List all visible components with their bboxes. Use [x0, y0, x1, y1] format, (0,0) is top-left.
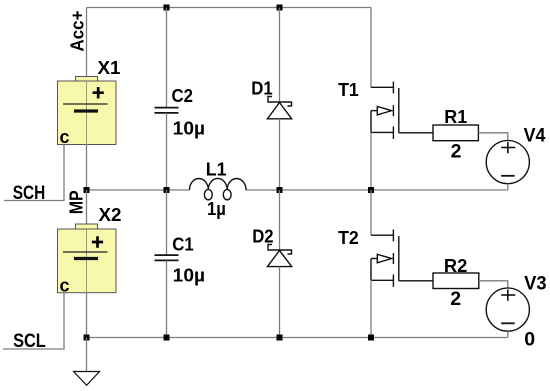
wire T1 gate to R1	[399, 132, 433, 134]
resistor R1	[433, 125, 478, 141]
voltage source V3	[486, 288, 529, 331]
svg-text:D2: D2	[252, 226, 273, 247]
wire R2 to V3	[479, 281, 508, 288]
wire D2 bottom	[279, 267, 281, 338]
svg-text:X1: X1	[98, 57, 121, 78]
battery X2	[58, 224, 117, 296]
svg-text:10µ: 10µ	[173, 266, 205, 286]
svg-text:R1: R1	[444, 106, 467, 127]
junction D mid	[277, 187, 283, 193]
svg-text:0: 0	[524, 329, 535, 351]
diode D1	[267, 97, 291, 119]
wire MP to X2	[86, 190, 88, 224]
wire C2 top	[166, 8, 168, 108]
wire T2 source lead	[370, 280, 372, 337]
svg-text:V4: V4	[524, 125, 546, 146]
svg-text:C1: C1	[172, 234, 194, 255]
wire D2 top	[279, 190, 281, 250]
inductor L1	[190, 178, 247, 199]
wire V4 bottom to MP rail	[507, 184, 509, 190]
wire V3 bottom to bottom rail	[507, 331, 509, 337]
wire R1 to V4	[478, 133, 507, 141]
junction X2 bottom	[84, 335, 90, 341]
wire D1 top	[279, 8, 281, 103]
svg-text:SCL: SCL	[13, 330, 46, 352]
junction C1 bottom	[164, 335, 170, 341]
wire D1 bottom	[279, 119, 281, 190]
wire T2 gate to R2	[399, 280, 433, 282]
svg-text:V3: V3	[524, 273, 547, 294]
junction T1 source	[368, 187, 374, 193]
svg-text:D1: D1	[251, 78, 272, 99]
svg-text:2: 2	[451, 141, 462, 163]
wire T2 drain lead	[370, 190, 372, 235]
junction C2 top	[164, 5, 170, 11]
svg-text:Acc+: Acc+	[68, 11, 88, 52]
junction C1 MP	[164, 187, 170, 193]
junction T2 source	[368, 335, 374, 341]
svg-text:C2: C2	[172, 85, 194, 106]
wire C2 bottom	[166, 113, 168, 190]
junction D1 top	[277, 5, 283, 11]
capacitor C2	[155, 108, 179, 113]
ground	[74, 372, 100, 386]
svg-text:2: 2	[450, 288, 461, 310]
wire bottom rail	[87, 337, 508, 339]
junction D2 bottom	[277, 335, 283, 341]
svg-text:10µ: 10µ	[173, 119, 205, 139]
transistor T2	[371, 230, 399, 287]
svg-text:c: c	[60, 276, 70, 296]
battery X1	[58, 77, 117, 148]
svg-text:MP: MP	[66, 190, 87, 214]
wire T1 drain lead	[370, 8, 372, 88]
svg-text:L1: L1	[206, 158, 227, 179]
wire X1 c pin to SCH	[4, 145, 64, 201]
transistor T1	[371, 82, 399, 139]
resistor R2	[433, 273, 479, 289]
svg-text:1µ: 1µ	[207, 199, 226, 219]
wire C1 bottom	[166, 260, 168, 337]
wire X2 c pin to SCL	[3, 293, 64, 349]
wire MP rail	[87, 189, 508, 191]
wire to ground	[86, 338, 88, 372]
svg-text:X2: X2	[99, 204, 122, 225]
wire top rail Acc+	[87, 7, 372, 9]
diode D2	[267, 245, 291, 267]
wire C1 top	[166, 190, 168, 255]
voltage source V4	[486, 141, 529, 184]
svg-text:T2: T2	[338, 227, 359, 248]
wire X2 bottom to ground junction	[86, 293, 88, 338]
svg-text:SCH: SCH	[13, 182, 46, 204]
svg-text:R2: R2	[444, 255, 468, 276]
svg-text:T1: T1	[338, 79, 359, 100]
junction MP	[84, 187, 90, 193]
wire T1 source lead	[370, 132, 372, 190]
svg-text:c: c	[60, 127, 70, 147]
wire Acc+ drop to X1	[86, 8, 88, 77]
capacitor C1	[155, 255, 179, 260]
wire X1 bottom to MP junction	[86, 145, 88, 191]
